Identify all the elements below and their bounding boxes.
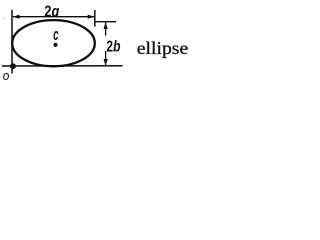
arrowhead left of 2a (13, 15, 20, 19)
center dot c (53, 43, 57, 47)
arrowhead bottom of 2b (104, 59, 108, 66)
dimension line 2b upper segment (105, 22, 107, 35)
svg-text:o: o (3, 68, 10, 83)
origin dot o (10, 63, 16, 69)
bottom baseline (2, 65, 123, 67)
faint scan speck (3, 18, 5, 20)
dimension line 2b lower segment (105, 51, 107, 66)
ellipse outline (12, 20, 95, 66)
right extension line (94, 10, 96, 27)
svg-text:2ɑ: 2ɑ (44, 4, 59, 21)
left extension line (11, 10, 13, 74)
dimension line 2a (13, 16, 94, 18)
arrowhead right of 2a (88, 15, 95, 19)
extension line top of 2b (95, 21, 116, 23)
svg-text:c: c (53, 25, 58, 44)
svg-text:2b: 2b (106, 39, 120, 56)
svg-text:ellipse: ellipse (137, 38, 188, 58)
arrowhead top of 2b (104, 22, 108, 29)
